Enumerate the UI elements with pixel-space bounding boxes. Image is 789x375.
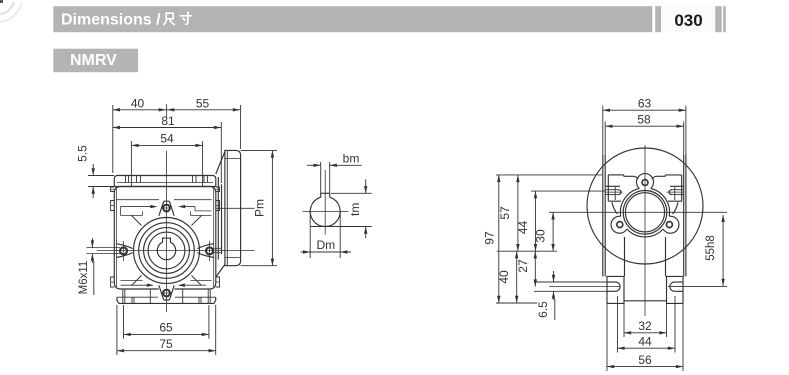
flange plate left edge <box>607 175 609 201</box>
input flange spigot circle <box>623 191 667 235</box>
groove arrow line br <box>184 284 206 286</box>
arrow 44b right <box>668 347 675 350</box>
dim 6.5 upper seg <box>553 271 555 282</box>
bottom plate top edge right <box>175 296 216 298</box>
flange ear bolt hole <box>666 222 672 228</box>
groove stepped line br <box>191 280 212 282</box>
ext tm bottom <box>311 226 372 228</box>
bottom bolt boss <box>159 285 174 300</box>
top bolt boss <box>159 201 174 216</box>
ext tm top <box>331 192 372 194</box>
arrow 55 right <box>233 108 240 111</box>
svg-text:30: 30 <box>534 229 548 243</box>
right bolt boss lower curve <box>197 253 213 258</box>
6.5 label underline <box>554 299 556 320</box>
ext line 5.5 bottom <box>88 186 114 188</box>
NMRV label box <box>53 49 138 72</box>
bottom plate slot tick <box>124 289 126 303</box>
flange top mid right <box>657 175 666 177</box>
left pocket bolt line 2 <box>605 194 618 196</box>
arrow M6 up <box>91 254 94 261</box>
dim line 97 <box>498 175 500 303</box>
ext line flange face <box>240 105 242 149</box>
ext keyway left up <box>320 162 322 193</box>
top ear fillet right <box>652 176 657 179</box>
ext line 54 left <box>130 141 132 187</box>
flange circle 2 <box>139 223 195 279</box>
arrow 5.5 up <box>92 187 95 194</box>
top edge step left <box>623 175 625 176</box>
arrow Pm top <box>271 150 274 157</box>
right slot top <box>675 281 684 283</box>
bore vertical center line <box>324 170 326 235</box>
svg-text:27: 27 <box>516 259 530 273</box>
dim tm upper seg <box>365 179 367 193</box>
CJK char chi <box>164 13 175 24</box>
ext line Pm bottom <box>241 265 277 267</box>
left pocket bottom shelf <box>608 200 621 202</box>
top plate pad tick <box>128 176 130 183</box>
svg-text:bm: bm <box>343 152 360 166</box>
arrow 65 left <box>124 333 131 336</box>
svg-text:M6x11: M6x11 <box>78 261 90 295</box>
right side tab <box>216 277 220 287</box>
groove step <box>194 207 196 211</box>
flange plate right edge <box>681 175 683 201</box>
trefoil outline arc <box>651 188 670 216</box>
right slot center + 55h8 ext bottom <box>668 286 727 288</box>
bore horizontal center line <box>303 211 349 213</box>
column inner right <box>683 155 685 276</box>
dim bm left seg <box>307 164 321 166</box>
svg-text:40: 40 <box>497 270 511 284</box>
arrow 6.5 down <box>552 275 555 282</box>
ext line 75 left <box>116 305 118 355</box>
ext 56 right <box>682 304 684 371</box>
dim bm right seg <box>330 164 362 166</box>
body bottom edge break for boss <box>159 287 175 290</box>
arrow 40 top <box>515 251 518 258</box>
top plate pad tick <box>203 176 205 183</box>
header right gray block <box>715 6 722 32</box>
arrow 44 top <box>534 191 537 198</box>
worm axis center line <box>216 207 255 209</box>
arrow 32 right <box>659 331 666 334</box>
hub circle 4 <box>148 232 185 269</box>
arrow 56 left <box>607 365 614 368</box>
groove arrow line bl <box>121 284 148 286</box>
top plate pad tick <box>140 176 142 183</box>
groove lower line left <box>121 214 143 216</box>
tab tick <box>216 188 220 190</box>
groove lower line right <box>191 214 212 216</box>
arrow 97 top <box>497 175 500 182</box>
svg-text:NMRV: NMRV <box>70 52 117 69</box>
top bolt hole M6 <box>163 205 170 212</box>
shaft bore circle <box>310 197 340 226</box>
ext 44b left <box>617 296 619 353</box>
arrow 57 top <box>516 175 519 182</box>
horizontal center line <box>97 250 255 252</box>
dim line 63 <box>603 109 686 111</box>
svg-text:81: 81 <box>161 114 175 128</box>
trefoil outline arc <box>620 188 639 216</box>
arrow 30 bottom <box>551 244 554 251</box>
dim line 55h8 <box>722 215 724 286</box>
dim line 58 <box>605 125 684 127</box>
svg-text:57: 57 <box>498 206 512 220</box>
left pocket screw center line <box>605 191 622 193</box>
top edge step right <box>664 175 666 176</box>
top hole cross tick <box>162 207 172 209</box>
ext line left face <box>112 105 114 173</box>
input flange face line <box>226 150 228 265</box>
right hole vertical tick <box>209 241 211 261</box>
right view vertical center line <box>644 145 646 316</box>
bottom hole cross tick <box>162 292 172 294</box>
input flange side rect <box>225 150 241 265</box>
groove arrow line right <box>185 206 196 208</box>
svg-text:65: 65 <box>159 321 173 335</box>
groove step left <box>120 207 122 216</box>
left slot top <box>607 281 616 283</box>
groove arrow line left <box>121 206 151 208</box>
arrow Pm bottom <box>271 259 274 266</box>
ext 63 left <box>602 106 604 156</box>
arrow 40 bottom <box>515 296 518 303</box>
left side tab <box>111 277 115 287</box>
arrow 40 right <box>159 108 166 111</box>
E hole thread line upper <box>214 247 223 249</box>
flange rim tick top <box>225 158 241 160</box>
neck top diagonal <box>216 152 225 175</box>
svg-text:55: 55 <box>196 96 210 110</box>
tab tick <box>111 205 115 207</box>
dim line 56 <box>607 366 683 368</box>
right side tab <box>216 187 220 192</box>
input flange bore circle <box>625 193 664 232</box>
ext line 5.5 top <box>88 175 114 177</box>
dim line 40-55 <box>113 109 240 111</box>
right pocket tick <box>674 186 676 200</box>
M6 thread line upper <box>87 247 121 249</box>
NE rib diagonal <box>192 216 202 226</box>
NW rib diagonal <box>132 216 142 226</box>
flange top mid left <box>624 175 634 177</box>
keyway right side <box>329 193 331 197</box>
dim line Pm <box>271 150 273 265</box>
header 030 box <box>661 6 715 32</box>
arrow 27 top <box>534 251 537 258</box>
arrow 63 right <box>679 109 686 112</box>
tab tick <box>111 281 115 283</box>
arrow 5.5 down <box>92 168 95 175</box>
dim 5.5 lower seg <box>92 187 94 199</box>
right pocket bottom shelf <box>668 200 682 202</box>
ext keyway right up <box>329 162 331 193</box>
svg-text:40: 40 <box>131 96 145 110</box>
arrow tm up <box>364 227 367 234</box>
header small gray block <box>655 6 661 32</box>
ext 32 left <box>623 304 625 337</box>
arrow 57 bottom <box>516 244 519 251</box>
groove step <box>190 211 192 215</box>
gearbox top flange plate <box>114 176 216 187</box>
arrow M6 down <box>91 240 94 247</box>
tab tick <box>111 188 115 190</box>
left pocket top <box>605 185 620 187</box>
arrow 44b left <box>618 347 625 350</box>
M6 thread line lower <box>87 253 121 255</box>
CJK char cun <box>180 12 191 24</box>
left pocket tick <box>614 186 616 200</box>
ext mid reference line <box>497 250 557 252</box>
arrow 75 left <box>117 349 124 352</box>
right bolt boss upper curve <box>197 244 213 249</box>
body right chamfer line <box>213 189 215 288</box>
web line right <box>665 237 667 276</box>
left side tab <box>111 201 115 211</box>
dim line Dm <box>301 251 351 253</box>
top plate pad tick <box>195 176 197 183</box>
right pocket top <box>670 185 684 187</box>
dim M6 lower seg <box>91 254 93 263</box>
arrow 30 top <box>551 212 554 219</box>
arrow 55h8 top <box>721 215 724 222</box>
svg-text:58: 58 <box>637 113 651 127</box>
dim line 65 <box>124 333 209 335</box>
vertical center line <box>166 151 168 312</box>
dim 5.5 upper seg <box>92 164 94 176</box>
dim line 81 <box>113 127 221 129</box>
arrow 55 left <box>167 108 174 111</box>
bottom plate slot tick <box>198 297 200 303</box>
tab tick <box>216 281 220 283</box>
ext 58 left <box>604 122 606 156</box>
neck bottom diagonal <box>216 265 225 278</box>
ext 32 right <box>666 304 668 337</box>
groove stepped line bl <box>121 280 143 282</box>
scan artifact corner dot <box>0 0 3 3</box>
arrow 56 right <box>676 365 683 368</box>
top plate groove line <box>117 182 213 184</box>
ext 56 left <box>606 304 608 371</box>
dim line 54 <box>131 144 202 146</box>
right side tab <box>216 201 220 211</box>
right view horizontal center line <box>549 211 727 213</box>
right foot <box>667 276 684 303</box>
arrow Dm left <box>303 250 310 253</box>
ext 44b right <box>674 296 676 353</box>
ext line 75 right <box>215 305 217 355</box>
arrow 40 left <box>113 108 120 111</box>
arrow 54 left <box>131 144 138 147</box>
ext Dm right <box>339 212 341 259</box>
ext 58 right <box>683 122 685 156</box>
left slot round end <box>616 282 621 291</box>
scan artifact arc2 <box>0 3 22 22</box>
left foot <box>607 276 624 303</box>
ext line 81 right <box>220 122 222 183</box>
neck line 2 <box>221 184 223 254</box>
right slot round end <box>670 282 675 291</box>
groove arrow left <box>150 205 157 208</box>
arrow 97 bottom <box>497 296 500 303</box>
scan artifact arc <box>0 2 14 14</box>
arrow 27 bottom <box>534 279 537 286</box>
svg-text:56: 56 <box>638 353 652 367</box>
hub circle 3 <box>144 228 190 274</box>
body left chamfer line <box>115 189 117 288</box>
svg-text:75: 75 <box>159 337 173 351</box>
keyway top line <box>321 192 330 194</box>
bottom plate slot tick <box>209 289 211 303</box>
column inner left <box>604 155 606 276</box>
left slot bottom <box>607 290 616 292</box>
left slot center line <box>549 286 620 288</box>
ext line 65 left <box>123 305 125 339</box>
slot bottom line ext <box>534 290 607 292</box>
face groove line upper <box>117 199 160 201</box>
flange top pad right <box>665 174 681 176</box>
dim line 32 <box>624 332 667 334</box>
bottom plate slot tick <box>207 289 209 303</box>
top plate pad tick <box>192 176 194 183</box>
arrow tm down <box>364 186 367 193</box>
flange ear boss arc <box>611 216 627 233</box>
svg-text:Pm: Pm <box>253 199 267 217</box>
worm housing large circle <box>587 148 703 264</box>
arrow 55h8 bottom <box>721 279 724 286</box>
flange outer circle <box>134 218 200 284</box>
groove arrow bl <box>147 284 154 287</box>
flange ear bolt hole <box>642 180 648 186</box>
arrow bm right <box>330 164 337 167</box>
arrow 63 left <box>603 109 610 112</box>
right pocket screw center line <box>667 191 684 193</box>
face groove line upper right <box>174 199 212 201</box>
ext line 65 right <box>208 305 210 339</box>
ext base line <box>496 302 537 304</box>
svg-text:5.5: 5.5 <box>76 145 90 162</box>
svg-text:63: 63 <box>638 97 652 111</box>
bottom plate slot tick <box>182 289 184 303</box>
bottom plate slot tick <box>133 297 135 303</box>
ext Dm left <box>309 212 311 259</box>
groove step line <box>195 210 212 212</box>
left pocket fillet <box>612 202 618 214</box>
tab tick <box>216 205 220 207</box>
arrow Dm right <box>340 250 347 253</box>
arrow 65 right <box>202 333 209 336</box>
ext 44 line <box>531 190 605 192</box>
dim tm lower seg <box>365 227 367 239</box>
arrow 58 right <box>677 125 684 128</box>
left bolt hole M6 <box>120 247 127 254</box>
groove arrow right <box>178 205 185 208</box>
E hole thread line lower <box>214 252 223 254</box>
arrow 44 bottom <box>534 244 537 251</box>
left side tab <box>111 187 115 192</box>
left hole vertical tick <box>123 241 125 261</box>
dim line 44 vert <box>535 191 537 251</box>
column outer left <box>602 155 604 276</box>
dim line 75 <box>117 350 216 352</box>
neck line 1 <box>217 177 219 260</box>
left pocket bolt line 1 <box>605 189 618 191</box>
svg-text:tm: tm <box>348 203 362 216</box>
bottom plate slot tick <box>200 297 202 303</box>
SE rib diagonal <box>192 276 202 286</box>
dim line 27 <box>534 251 536 286</box>
right pocket bolt line 1 <box>672 189 684 191</box>
arrow 81 right <box>214 126 221 129</box>
svg-text:Dm: Dm <box>316 238 335 252</box>
dim 6.5 lower seg <box>553 291 555 300</box>
ext line 54 right <box>202 141 204 187</box>
dim line 40 vert <box>516 251 518 303</box>
top plate pad tick <box>207 176 209 183</box>
top dim division tick <box>166 104 168 118</box>
svg-text:6.5: 6.5 <box>536 301 550 318</box>
flange ear bolt hole <box>617 222 623 228</box>
top plate pad tick <box>136 176 138 183</box>
arrow 54 right <box>195 144 202 147</box>
top plate pad tick <box>125 176 127 183</box>
keyway left side <box>320 193 322 197</box>
dim line 44 bottom <box>618 347 676 349</box>
left bolt boss lower curve <box>116 253 132 258</box>
left bolt boss upper curve <box>116 244 132 249</box>
gearbox body square outline <box>114 187 216 290</box>
header bar <box>53 6 652 32</box>
column outer right <box>685 155 687 276</box>
arrow 6.5 up <box>552 291 555 298</box>
dim line 30 <box>552 212 554 251</box>
svg-text:030: 030 <box>674 11 702 30</box>
slot top line ext <box>534 281 607 283</box>
svg-text:97: 97 <box>482 231 496 245</box>
flange ear boss arc <box>663 216 679 233</box>
right pocket screw cap arc <box>669 190 672 195</box>
right bolt hole M6 <box>206 247 213 254</box>
arrow bm left <box>314 164 321 167</box>
web line left <box>624 237 626 276</box>
left pocket screw cap arc <box>618 190 621 195</box>
flange rim tick bottom <box>225 257 241 259</box>
ext 63 right <box>685 106 687 156</box>
trefoil outline arc <box>627 229 663 237</box>
arrow 58 left <box>605 125 612 128</box>
ext top face line <box>496 174 602 176</box>
groove step <box>142 211 144 215</box>
label M6x11 underline <box>93 261 95 295</box>
groove arrow br <box>178 284 185 287</box>
ext line Pm top <box>241 149 277 151</box>
bore keyway notch <box>163 238 171 242</box>
arrow 32 left <box>624 331 631 334</box>
svg-text:55h8: 55h8 <box>705 235 717 261</box>
right pocket fillet <box>673 202 679 214</box>
arrow 81 left <box>113 126 120 129</box>
svg-text:32: 32 <box>638 319 652 333</box>
bottom plate top edge left <box>117 296 158 298</box>
svg-text:Dimensions /: Dimensions / <box>61 11 161 28</box>
dim M6 upper seg <box>91 238 93 248</box>
header right thin strip <box>723 6 726 32</box>
base line between feet <box>624 300 667 302</box>
SW rib diagonal <box>132 276 142 286</box>
